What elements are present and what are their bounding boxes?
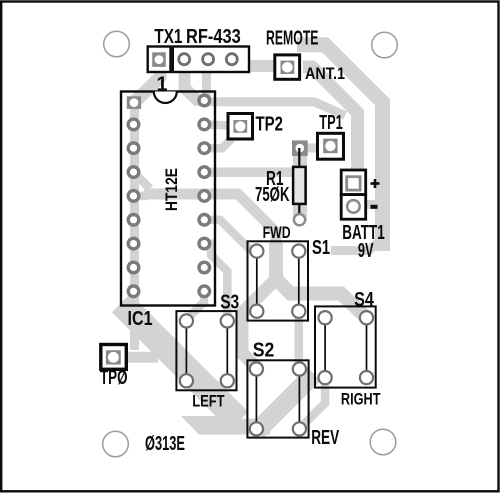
svg-text:RIGHT: RIGHT <box>341 390 381 409</box>
wire branch S1 interior to S2 top-left pad <box>242 279 276 367</box>
test point TP1 <box>318 133 344 159</box>
wire mega band bottom strip <box>202 419 270 435</box>
wire outer band REMOTE to right side down <box>297 45 383 251</box>
svg-text:1: 1 <box>157 73 168 96</box>
resistor R1 lead <box>298 148 300 220</box>
pad TX1 pin4 <box>226 54 237 65</box>
switch S3 LEFT <box>176 311 236 390</box>
wire inner band ANT.1 to BATT1 plus <box>303 67 358 174</box>
switch S1 FWD <box>248 241 309 320</box>
wire IC interior band to S1 and S4 <box>144 194 276 248</box>
wire IC pin3 right to TP2 bottom <box>204 132 231 148</box>
wire band A 9V horizontal <box>331 238 382 251</box>
svg-text:TPØ: TPØ <box>100 366 128 389</box>
pad ANT.1 <box>275 55 300 79</box>
wire IC pin4 right to R1 top <box>204 168 294 178</box>
connector BATT1 minus pad <box>341 195 366 220</box>
mounting hole top-right <box>372 32 398 58</box>
pad TX1 pin1 square <box>152 52 166 67</box>
svg-text:75ØK: 75ØK <box>255 183 290 206</box>
wire mega band rising diagonal to S4 <box>257 374 314 431</box>
wire mega band lower-left fill <box>181 416 236 435</box>
wire Y junction pins 4,5 <box>134 172 151 189</box>
svg-text:S4: S4 <box>354 288 374 311</box>
svg-text:ANT.1: ANT.1 <box>305 64 345 83</box>
resistor R1 body <box>293 167 306 204</box>
IC notch <box>154 92 177 104</box>
wire BATT1 minus pad to outer band <box>364 200 380 209</box>
IC IC1 HT12E body <box>121 92 215 306</box>
wire header pad2 into IC pin1 right <box>185 58 205 101</box>
svg-text:Ø313E: Ø313E <box>145 432 185 455</box>
wire behind resistor R1 <box>293 146 307 221</box>
mounting hole bottom-right <box>370 429 396 455</box>
connector BATT1 plus pad <box>341 170 366 195</box>
wire mega band lower left <box>121 303 239 421</box>
svg-text:REV: REV <box>311 426 339 449</box>
pads IC right pins 10-18 <box>199 95 210 296</box>
wire TP0 stub to mega band <box>120 352 158 363</box>
connector TX1 RF-433 header outline <box>148 47 171 73</box>
svg-text:S3: S3 <box>220 291 239 314</box>
wire S2 bottom-right to S4 bottom-left <box>299 380 325 429</box>
svg-text:IC1: IC1 <box>128 307 153 330</box>
pad TX1 pin3 <box>203 54 214 65</box>
svg-text:HT12E: HT12E <box>162 168 181 211</box>
switch S4 RIGHT <box>315 306 376 387</box>
wire S1 bottom-right pad to S2 top-right pad <box>295 314 304 366</box>
svg-text:S2: S2 <box>253 338 275 361</box>
svg-text:LEFT: LEFT <box>192 392 225 411</box>
wire header pad4 to ANT.1 <box>232 58 276 66</box>
svg-text:RF-433: RF-433 <box>186 25 241 48</box>
wire header pad3 to TP1 <box>207 58 346 116</box>
label minus <box>371 205 378 209</box>
test point TP2 <box>228 114 253 140</box>
wire IC pin2 right to TP2 <box>204 124 230 125</box>
svg-text:TX1: TX1 <box>154 25 182 48</box>
svg-text:S1: S1 <box>312 236 330 259</box>
label plus <box>371 179 380 188</box>
test point TP0 <box>101 345 127 370</box>
svg-text:REMOTE: REMOTE <box>266 27 319 50</box>
svg-text:FWD: FWD <box>263 223 291 242</box>
wire IC pin7 right to S3 top-right pad <box>204 244 227 318</box>
mounting hole bottom-left <box>103 431 129 457</box>
svg-text:TP1: TP1 <box>319 111 343 134</box>
wire R1 top pad to TP1 <box>305 144 320 153</box>
switch S2 REV <box>247 360 308 437</box>
pad IC pin1 square <box>127 96 141 109</box>
wire header pad1 to IC pin1 <box>135 62 161 101</box>
resistor R1 bottom pad <box>294 214 305 225</box>
pads IC left pins 2-9 <box>128 119 139 297</box>
wire IC left pins vertical to TP0 area <box>130 101 139 351</box>
wire IC pin9 to S3 top-left pad <box>186 291 204 319</box>
pad TX1 pin2 <box>179 54 190 65</box>
wire IC pin6 right to S1 top-left pad <box>204 220 252 252</box>
svg-text:9V: 9V <box>358 239 374 262</box>
resistor R1 top pad <box>292 140 308 156</box>
mounting hole top-left <box>104 31 130 57</box>
svg-text:TP2: TP2 <box>256 113 284 136</box>
